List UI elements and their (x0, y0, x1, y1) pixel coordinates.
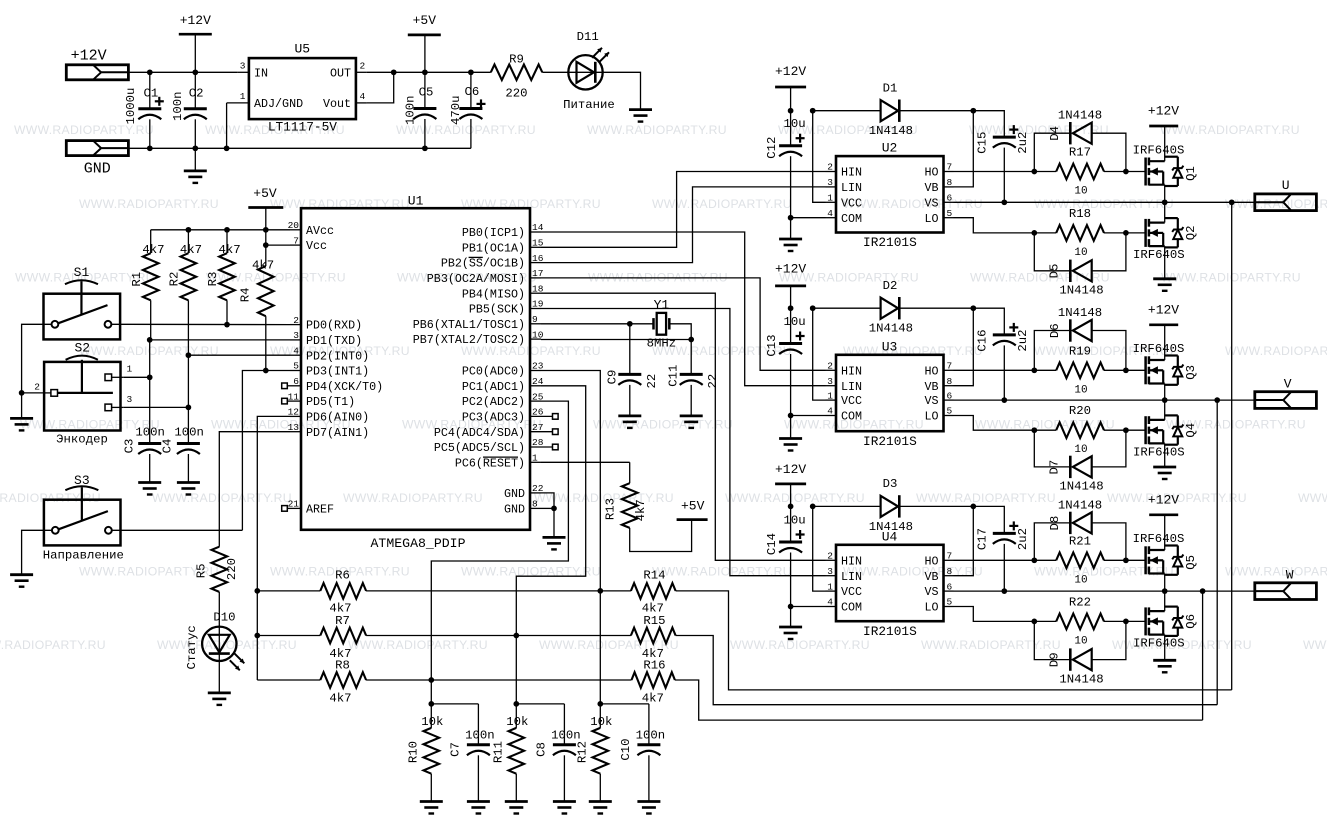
power rail +5V (MCU) (248, 206, 283, 209)
diode D4 1N4148 (1034, 133, 1070, 171)
svg-text:PD2(INT0): PD2(INT0) (306, 349, 369, 363)
pin 2 encoder (44, 392, 51, 394)
svg-text:10u: 10u (784, 117, 806, 131)
pin 6 VS (944, 590, 954, 592)
svg-text:WWW.RADIOPARTY.RU: WWW.RADIOPARTY.RU (1034, 565, 1174, 579)
wire VCC riser (813, 506, 826, 591)
svg-text:U: U (1282, 178, 1290, 193)
junction (970, 108, 976, 114)
svg-text:S2: S2 (74, 341, 90, 356)
pin 1 VCC (826, 399, 837, 401)
svg-text:10k: 10k (421, 715, 443, 729)
svg-text:R9: R9 (509, 53, 524, 67)
svg-text:2: 2 (360, 60, 366, 71)
junction (PC2 tap) (428, 677, 434, 683)
svg-text:R12: R12 (576, 741, 590, 763)
svg-text:PD3(INT1): PD3(INT1) (306, 365, 369, 379)
svg-text:C4: C4 (161, 439, 175, 454)
svg-text:Статус: Статус (185, 625, 199, 669)
LED D10 status (202, 627, 236, 661)
junction (688, 337, 694, 343)
svg-text:Vcc: Vcc (306, 239, 327, 253)
pin 5 LO (944, 415, 954, 417)
resistor R12 10k (599, 704, 601, 728)
svg-text:IR2101S: IR2101S (863, 624, 917, 639)
junction (PD1 tap) (147, 337, 153, 343)
svg-text:R19: R19 (1069, 344, 1091, 358)
junction (1123, 619, 1129, 625)
svg-text:C17: C17 (976, 528, 990, 550)
svg-text:U3: U3 (882, 339, 898, 354)
svg-text:IRF640S: IRF640S (1133, 248, 1185, 262)
svg-text:R10: R10 (407, 741, 421, 763)
pin 4 Vout (356, 102, 367, 104)
svg-text:7: 7 (947, 551, 953, 562)
wire +5V down to AVcc/Vcc (265, 208, 267, 246)
junction (PC0 tap) (597, 588, 603, 594)
svg-text:100n: 100n (465, 729, 495, 743)
resistor R7 4k7 (320, 628, 366, 644)
pin 13 PD7(AIN1) (290, 431, 301, 433)
svg-text:10: 10 (1074, 444, 1087, 456)
svg-text:OUT: OUT (330, 67, 351, 81)
svg-text:Q3: Q3 (1184, 365, 1198, 380)
svg-text:WWW.RADIOPARTY.RU: WWW.RADIOPARTY.RU (970, 270, 1110, 284)
wire R16 to phase W (675, 680, 1203, 720)
diode D5 1N4148 (1034, 233, 1070, 271)
svg-text:COM: COM (841, 410, 862, 424)
svg-text:R18: R18 (1069, 207, 1091, 221)
junction (1031, 367, 1037, 373)
svg-text:LIN: LIN (841, 570, 862, 584)
switch S3 direction (44, 500, 121, 546)
svg-text:PD7(AIN1): PD7(AIN1) (306, 426, 369, 440)
svg-text:10: 10 (1074, 574, 1087, 586)
wire PB6 to crystal (541, 323, 653, 325)
junction (1001, 588, 1007, 594)
svg-text:WWW.RADIOPARTY.RU: WWW.RADIOPARTY.RU (843, 565, 983, 579)
IC U4 IR2101S (836, 545, 944, 621)
junction (263, 242, 269, 248)
pin 3 PD1(TXD) (290, 339, 301, 341)
svg-text:2u2: 2u2 (1016, 528, 1030, 550)
svg-text:10: 10 (532, 329, 544, 340)
svg-text:PB5(SCK): PB5(SCK) (469, 303, 525, 317)
svg-text:8: 8 (947, 376, 953, 387)
svg-text:11: 11 (288, 391, 300, 402)
svg-text:7: 7 (947, 361, 953, 372)
pin 4 PD2(INT0) (290, 354, 301, 356)
capacitor C3 100n (138, 442, 161, 445)
svg-text:WWW.RADIOPARTY.RU: WWW.RADIOPARTY.RU (587, 123, 727, 137)
junction (788, 215, 794, 221)
resistor R1 4k7 (150, 230, 152, 253)
junction (788, 604, 794, 610)
capacitor C15 2u2 (973, 111, 1004, 137)
junction (147, 69, 153, 75)
wire VCC riser (813, 111, 826, 203)
pin 12 PD6(AIN0) (290, 415, 301, 417)
svg-text:WWW.RADIOPARTY.RU: WWW.RADIOPARTY.RU (79, 197, 219, 211)
wire (790, 484, 792, 507)
resistor R15 4k7 (631, 628, 676, 644)
svg-text:LO: LO (924, 410, 938, 424)
svg-text:Энкодер: Энкодер (56, 432, 108, 446)
pin 6 PD4(XCK/T0) (288, 385, 302, 387)
svg-text:WWW.RADIOPARTY.RU: WWW.RADIOPARTY.RU (725, 491, 865, 505)
svg-text:5: 5 (947, 406, 953, 417)
svg-text:WWW.RADIOPARTY.RU: WWW.RADIOPARTY.RU (1160, 123, 1300, 137)
wire (366, 635, 631, 637)
svg-text:10u: 10u (784, 513, 806, 527)
junction (468, 69, 474, 75)
wire (790, 607, 792, 628)
svg-text:4: 4 (827, 208, 833, 219)
power rail +12V (Q1) (1149, 125, 1178, 128)
svg-text:C9: C9 (606, 370, 620, 385)
svg-text:220: 220 (505, 87, 527, 101)
junction (422, 69, 428, 75)
pin 2 HIN (826, 171, 837, 173)
svg-text:COM: COM (841, 601, 862, 615)
wire phase-V sense row (257, 635, 320, 637)
pin 8 GND (530, 507, 541, 509)
svg-text:WWW.RADIOPARTY.RU: WWW.RADIOPARTY.RU (593, 418, 733, 432)
pin 2 HIN (826, 559, 837, 561)
svg-text:10k: 10k (590, 715, 612, 729)
svg-text:WWW.RADIOPARTY.RU: WWW.RADIOPARTY.RU (1225, 344, 1327, 358)
power rail +12V (U3 section) (775, 285, 806, 288)
svg-text:WWW.RADIOPARTY.RU: WWW.RADIOPARTY.RU (916, 491, 1056, 505)
svg-text:GND: GND (504, 503, 525, 517)
power rail +5V (R13) (677, 518, 708, 521)
IC U3 IR2101S (836, 355, 944, 431)
junction (597, 701, 603, 707)
svg-text:6: 6 (293, 376, 299, 387)
wire AVcc net (151, 229, 290, 231)
svg-text:+5V: +5V (413, 13, 437, 28)
ground (Q4 source) (1153, 466, 1176, 469)
diode D8 1N4148 (1034, 523, 1070, 560)
capacitor C9 22 (629, 324, 631, 375)
wire PB4 to U4 HIN (541, 293, 826, 560)
pin 26 PC3(ADC3) (530, 415, 553, 417)
svg-text:C11: C11 (667, 365, 681, 387)
svg-text:ATMEGA8_PDIP: ATMEGA8_PDIP (371, 536, 466, 551)
pin 16 PB2(SS/OC1B) (530, 262, 541, 264)
svg-text:C6: C6 (465, 85, 480, 99)
svg-text:W: W (1286, 568, 1294, 583)
svg-text:WWW.RADIOPARTY.RU: WWW.RADIOPARTY.RU (1161, 270, 1301, 284)
junction (263, 227, 269, 233)
wire PB5 to U4 LIN (541, 309, 826, 576)
pin 4 COM (826, 217, 837, 219)
svg-text:3: 3 (827, 566, 833, 577)
pin 6 VS (944, 399, 954, 401)
junction (788, 413, 794, 419)
junction (513, 701, 519, 707)
wire PC1 staircase (516, 386, 585, 704)
svg-text:+12V: +12V (775, 262, 806, 277)
svg-text:+5V: +5V (681, 499, 705, 514)
svg-text:1N4148: 1N4148 (1059, 672, 1103, 686)
wire COM (791, 606, 826, 608)
svg-text:+12V: +12V (775, 462, 806, 477)
svg-text:100n: 100n (404, 95, 418, 125)
svg-text:3: 3 (127, 394, 133, 405)
pin 24 PC1(ADC1) (530, 385, 541, 387)
svg-text:1N4148: 1N4148 (1058, 498, 1102, 512)
svg-text:6: 6 (947, 581, 953, 592)
svg-text:D5: D5 (1048, 264, 1062, 279)
svg-text:VCC: VCC (841, 196, 862, 210)
pin 7 Vcc (290, 244, 301, 246)
wire (21, 393, 23, 419)
junction (147, 374, 153, 380)
svg-text:R20: R20 (1069, 404, 1091, 418)
wire (149, 340, 151, 444)
svg-text:100n: 100n (171, 91, 185, 121)
pin 7 HO (944, 559, 954, 561)
pin 17 PB3(OC2A/MOSI) (530, 277, 541, 279)
junction (PD2 tap) (186, 352, 192, 358)
junction (1031, 169, 1037, 175)
svg-text:2: 2 (827, 551, 833, 562)
resistor R17 10 (1056, 164, 1104, 180)
svg-text:PD1(TXD): PD1(TXD) (306, 334, 362, 348)
connector GND input (66, 141, 128, 156)
resistor R18 10 (1056, 225, 1104, 241)
wire phase U node (954, 201, 1255, 203)
wire phase-U sense row (257, 590, 320, 592)
svg-text:27: 27 (532, 422, 543, 433)
resistor R5 220 (212, 547, 228, 592)
svg-text:R4: R4 (238, 288, 252, 303)
svg-text:C3: C3 (122, 439, 136, 454)
junction (1123, 169, 1129, 175)
svg-text:HIN: HIN (841, 364, 862, 378)
junction (1031, 427, 1037, 433)
svg-text:6: 6 (947, 390, 953, 401)
ground (Q2 source) (1153, 277, 1176, 280)
svg-text:D1: D1 (883, 82, 898, 96)
junction (192, 69, 198, 75)
svg-text:VB: VB (924, 380, 938, 394)
svg-text:LIN: LIN (841, 181, 862, 195)
svg-text:HIN: HIN (841, 554, 862, 568)
svg-text:PB4(MISO): PB4(MISO) (462, 287, 525, 301)
wire PD7 to R5 (219, 432, 290, 547)
pin 1 encoder (112, 376, 124, 378)
svg-text:R14: R14 (643, 569, 665, 583)
wire PD2 wire (188, 354, 290, 356)
wire R13 to +5V (630, 520, 692, 552)
svg-text:PB6(XTAL1/TOSC1): PB6(XTAL1/TOSC1) (413, 318, 525, 332)
wire +5V output net (367, 71, 491, 73)
wire W sense drop (1202, 591, 1204, 720)
encoder S2 (44, 362, 120, 431)
power rail +12V (Q5) (1149, 513, 1178, 516)
wire R14 to phase U (676, 591, 1232, 690)
svg-text:PC6(RESET): PC6(RESET) (455, 456, 525, 470)
svg-text:AVcc: AVcc (306, 224, 334, 238)
svg-text:+12V: +12V (180, 13, 211, 28)
junction (970, 305, 976, 311)
svg-text:10: 10 (1074, 247, 1087, 259)
power rail +12V (U4 section) (775, 483, 806, 486)
svg-text:26: 26 (532, 407, 544, 418)
wire VB riser (954, 506, 974, 575)
pin 18 PB4(MISO) (530, 292, 541, 294)
connector V output (1255, 392, 1317, 409)
svg-text:Направление: Направление (43, 548, 124, 562)
svg-text:WWW.RADIOPARTY.RU: WWW.RADIOPARTY.RU (843, 197, 983, 211)
ground (COM U4) (779, 626, 802, 629)
svg-text:GND: GND (504, 487, 525, 501)
svg-text:1000u: 1000u (124, 88, 138, 125)
transistor Q3 IRF640S (1144, 356, 1147, 384)
svg-text:HO: HO (924, 166, 938, 180)
svg-text:HO: HO (924, 364, 938, 378)
svg-text:10k: 10k (506, 715, 528, 729)
svg-text:Питание: Питание (563, 98, 615, 112)
svg-text:100n: 100n (551, 729, 581, 743)
capacitor C8 100n (563, 704, 565, 745)
junction (186, 227, 192, 233)
junction (phase node) (1162, 199, 1168, 205)
ground (C9) (618, 414, 641, 417)
svg-text:R15: R15 (643, 614, 665, 628)
ground (C4) (177, 481, 200, 484)
ground (under C2) (194, 148, 196, 171)
wire U sense drop (1231, 202, 1233, 690)
transistor Q2 IRF640S (1144, 219, 1147, 247)
svg-text:5: 5 (293, 361, 299, 372)
svg-text:PD6(AIN0): PD6(AIN0) (306, 411, 369, 425)
pin 6 VS (944, 201, 954, 203)
wire (366, 679, 631, 681)
svg-text:9: 9 (532, 314, 538, 325)
svg-text:R5: R5 (194, 564, 208, 579)
wire phase V node (954, 399, 1255, 401)
svg-text:3: 3 (827, 177, 833, 188)
ground (Q6 source) (1153, 659, 1176, 662)
svg-text:3: 3 (293, 330, 299, 341)
junction (1031, 557, 1037, 563)
wire PB0 to U3 LIN (541, 232, 826, 386)
svg-text:WWW.RADIOPARTY.RU: WWW.RADIOPARTY.RU (1034, 197, 1174, 211)
junction (391, 69, 397, 75)
wire (242, 371, 290, 531)
svg-text:ADJ/GND: ADJ/GND (254, 97, 303, 111)
wire Vcc net (266, 244, 290, 246)
svg-text:4k7: 4k7 (642, 691, 664, 705)
junction (19, 390, 25, 396)
svg-text:PC5(ADC5/SCL): PC5(ADC5/SCL) (434, 441, 525, 455)
wire S3 right = PD3 net (112, 529, 243, 531)
resistor R10 10k (430, 704, 432, 728)
pin 23 PC0(ADC0) (530, 370, 541, 372)
svg-text:Vout: Vout (323, 97, 351, 111)
wire LO to gate (954, 416, 1057, 431)
junction (1123, 557, 1129, 563)
junction (1123, 367, 1129, 373)
svg-text:PD4(XCK/T0): PD4(XCK/T0) (306, 380, 383, 394)
resistor R22 10 (1056, 614, 1104, 630)
wire COM (791, 415, 826, 417)
svg-text:GND: GND (84, 161, 111, 178)
svg-text:C1: C1 (144, 86, 159, 100)
diode D3 1N4148 (813, 505, 881, 507)
svg-text:100n: 100n (174, 426, 204, 440)
wire GND net (128, 147, 471, 149)
pin 25 PC2(ADC2) (530, 400, 541, 402)
resistor R4 4k7 (265, 245, 267, 266)
junction (R4 on PD3) (263, 368, 269, 374)
svg-text:R7: R7 (335, 614, 350, 628)
svg-text:1: 1 (127, 364, 133, 375)
junction (1123, 427, 1129, 433)
power rail +12V (U2 section) (775, 86, 806, 89)
wire R15 to phase V (676, 636, 1218, 705)
wire (187, 355, 189, 443)
svg-text:28: 28 (532, 437, 544, 448)
diode D2 1N4148 (813, 307, 881, 309)
svg-text:1N4148: 1N4148 (1059, 284, 1103, 298)
wire PD1 wire (150, 339, 290, 341)
wire phase-W sense row (257, 679, 320, 681)
wire PB2 to U2 LIN (541, 187, 826, 263)
svg-text:10: 10 (1074, 186, 1087, 198)
capacitor C17 2u2 (973, 506, 1004, 533)
junction (788, 108, 794, 114)
pin 4 COM (826, 415, 837, 417)
svg-text:1: 1 (532, 453, 538, 464)
svg-text:WWW.RADIOPARTY.RU: WWW.RADIOPARTY.RU (730, 638, 870, 652)
svg-text:10u: 10u (784, 315, 806, 329)
wire VCC riser (813, 308, 826, 400)
wire (790, 286, 792, 308)
svg-text:2: 2 (827, 162, 833, 173)
svg-text:2: 2 (34, 382, 40, 393)
pin 8 VB (944, 575, 954, 577)
svg-text:S1: S1 (74, 265, 90, 280)
junction (254, 588, 260, 594)
pin 22 GND (530, 492, 541, 494)
ground (C11) (680, 414, 703, 417)
capacitor C1 1000u (149, 72, 151, 109)
svg-text:22: 22 (706, 374, 720, 389)
svg-text:D3: D3 (883, 477, 898, 491)
svg-text:2u2: 2u2 (1016, 329, 1030, 351)
svg-text:WWW.RADIOPARTY.RU: WWW.RADIOPARTY.RU (1298, 491, 1327, 505)
svg-text:IN: IN (254, 67, 268, 81)
svg-text:+5V: +5V (253, 186, 277, 201)
junction (422, 145, 428, 151)
resistor R11 10k (515, 704, 517, 728)
svg-text:PC3(ADC3): PC3(ADC3) (462, 411, 525, 425)
svg-text:IRF640S: IRF640S (1133, 143, 1185, 157)
svg-text:Y1: Y1 (654, 298, 670, 313)
svg-text:IRF640S: IRF640S (1133, 342, 1185, 356)
svg-text:PB1(OC1A): PB1(OC1A) (462, 241, 525, 255)
wire (603, 72, 641, 109)
wire ADJ to GND net (226, 103, 228, 148)
svg-text:C8: C8 (535, 742, 549, 757)
ground (R12) (589, 800, 612, 803)
svg-text:1N4148: 1N4148 (869, 322, 913, 336)
svg-text:R16: R16 (643, 658, 665, 672)
